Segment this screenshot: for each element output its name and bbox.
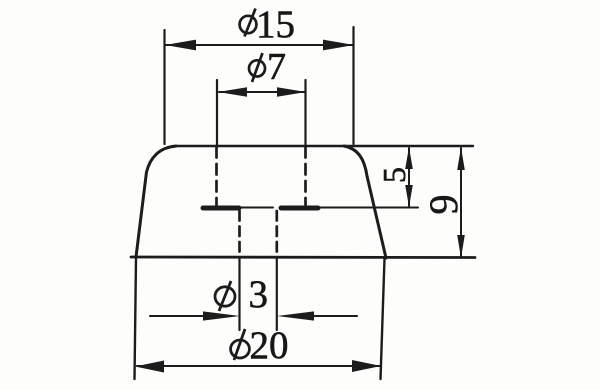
dimension line phi7 bbox=[219, 91, 305, 93]
dimension line phi20 bbox=[137, 365, 380, 367]
dimension leader phi3 left bbox=[150, 315, 208, 317]
arrowhead 5 top bbox=[405, 147, 413, 169]
svg-text:9: 9 bbox=[421, 195, 466, 215]
arrowhead 5 bottom bbox=[405, 185, 413, 207]
svg-text:20: 20 bbox=[250, 324, 289, 367]
extension line phi7 left bbox=[216, 80, 218, 146]
shoulder line middle thin segment bbox=[239, 207, 273, 209]
svg-text:15: 15 bbox=[256, 3, 295, 46]
counterbore shoulder thick bar right bbox=[281, 206, 318, 211]
arrowhead phi15 right bbox=[323, 40, 354, 51]
arrowhead phi7 right bbox=[277, 87, 306, 97]
dimension line 9 (vertical) bbox=[460, 148, 462, 257]
label phi20 bbox=[231, 329, 250, 360]
extension line phi3 right below part bbox=[276, 258, 278, 330]
label phi15 bbox=[240, 9, 257, 37]
arrowhead 9 top bbox=[457, 147, 465, 170]
part right rounded corner and slanted side bbox=[344, 146, 386, 258]
label phi7 bbox=[249, 53, 265, 82]
extension line phi3 left below part bbox=[238, 258, 240, 330]
dimension leader phi3 right bbox=[310, 315, 357, 317]
arrowhead phi15 left bbox=[165, 40, 196, 51]
hidden hole line phi7 right (dashed) bbox=[304, 147, 307, 205]
extension line phi15 left bbox=[163, 30, 165, 144]
svg-text:5: 5 bbox=[376, 167, 412, 183]
arrowhead phi3 left (pointing right) bbox=[203, 311, 240, 320]
svg-text:3: 3 bbox=[249, 273, 269, 316]
part bottom line extended right as extension line bbox=[131, 256, 475, 259]
dimension line phi15 bbox=[166, 44, 353, 46]
extension line phi20 right bbox=[381, 259, 385, 379]
counterbore shoulder thick bar left bbox=[203, 206, 239, 211]
dimension line 5 (vertical) bbox=[408, 148, 410, 206]
shoulder line right extension to 5-dim bbox=[318, 207, 418, 209]
extension line phi7 right bbox=[304, 80, 306, 146]
hidden hole line phi3 left (dashed) bbox=[238, 211, 241, 256]
arrowhead phi3 right (pointing left) bbox=[277, 311, 314, 320]
arrowhead 9 bottom bbox=[457, 235, 465, 258]
extension line phi20 left bbox=[135, 258, 137, 379]
arrowhead phi7 left bbox=[218, 87, 247, 97]
svg-text:7: 7 bbox=[267, 46, 286, 88]
part left rounded corner and slanted side bbox=[136, 146, 176, 257]
part top surface line extended right as extension line bbox=[176, 145, 473, 147]
arrowhead phi20 left bbox=[135, 361, 164, 373]
hidden hole line phi3 right (dashed) bbox=[275, 211, 278, 256]
label phi3 bbox=[215, 281, 235, 311]
extension line phi15 right bbox=[352, 27, 354, 144]
arrowhead phi20 right bbox=[352, 360, 381, 372]
hidden hole line phi7 left (dashed) bbox=[215, 147, 218, 205]
